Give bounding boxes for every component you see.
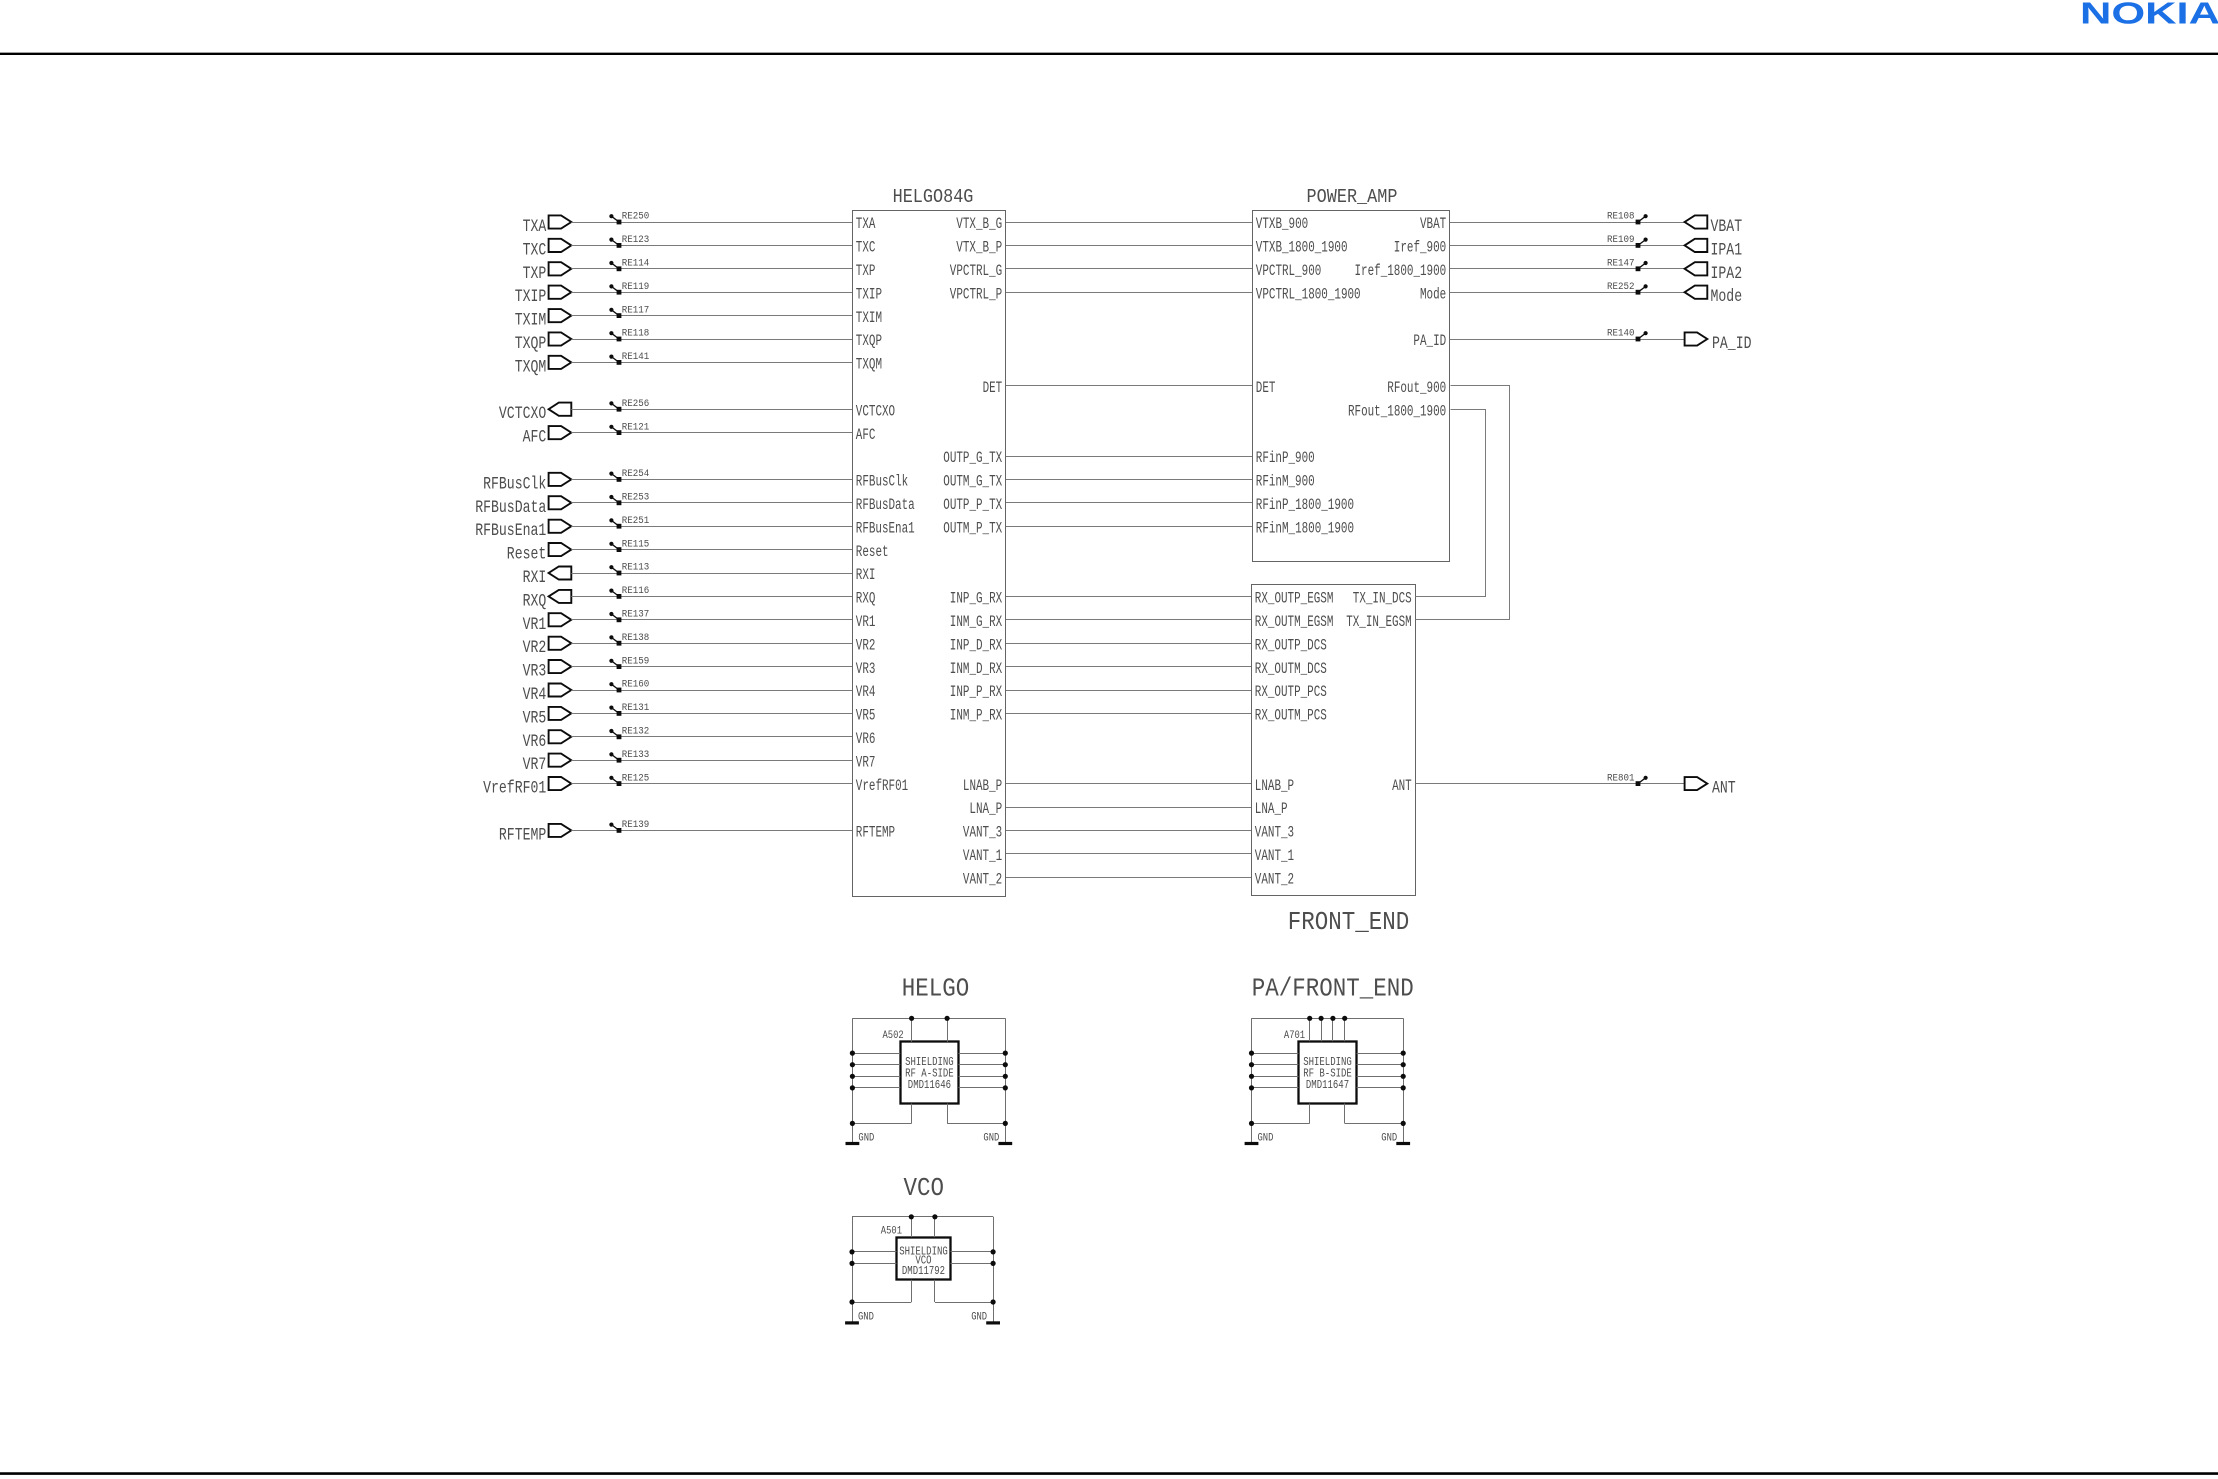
resistor RE117 [609, 304, 649, 318]
resistor RE251 [609, 515, 649, 529]
wire top pin 1 A701 [1309, 1018, 1311, 1041]
svg-text:RE117: RE117 [622, 304, 650, 316]
resistor RE118 [609, 328, 649, 342]
svg-text:VR4: VR4 [523, 685, 547, 705]
net flag Reset [507, 543, 572, 565]
ground right A502 [983, 1132, 1012, 1144]
svg-text:TXA: TXA [856, 215, 876, 233]
svg-text:RFBusEna1: RFBusEna1 [475, 521, 546, 541]
svg-text:RE132: RE132 [622, 726, 650, 738]
svg-text:RFinP_1800_1900: RFinP_1800_1900 [1256, 496, 1354, 514]
wire left pin 1 A501 [852, 1251, 896, 1253]
svg-text:RE114: RE114 [622, 258, 650, 270]
svg-text:VR6: VR6 [523, 732, 547, 752]
net flag VrefRF01 [483, 777, 571, 799]
wire right pin 2 A502 [959, 1064, 1006, 1066]
net flag RXQ [523, 590, 572, 612]
svg-text:RE256: RE256 [622, 398, 650, 410]
wire left rail A701 [1251, 1018, 1253, 1143]
resistor RE115 [609, 538, 649, 552]
svg-text:VBAT: VBAT [1711, 217, 1743, 237]
svg-text:RX_OUTM_EGSM: RX_OUTM_EGSM [1255, 613, 1334, 631]
net flag RFTEMP [499, 824, 571, 846]
wire left rail A502 [852, 1018, 854, 1143]
wire right pin 1 A501 [951, 1251, 994, 1253]
svg-text:RFinM_900: RFinM_900 [1256, 473, 1315, 491]
wire TXC to HELGO84G [571, 245, 852, 247]
svg-text:AFC: AFC [523, 428, 547, 448]
svg-text:DMD11646: DMD11646 [908, 1078, 951, 1092]
wire VrefRF01 to HELGO84G [571, 783, 852, 785]
svg-text:RE140: RE140 [1607, 328, 1635, 340]
wire VR2 to HELGO84G [571, 643, 852, 645]
svg-text:GND: GND [983, 1132, 999, 1144]
svg-text:RXQ: RXQ [856, 590, 876, 608]
resistor RE133 [609, 749, 649, 763]
net flag ANT [1685, 777, 1736, 799]
wire right rail A701 [1403, 1018, 1405, 1143]
resistor RE113 [609, 562, 649, 576]
shield can A701 [1284, 1030, 1357, 1103]
resistor RE253 [609, 492, 649, 506]
svg-text:PA_ID: PA_ID [1712, 334, 1752, 354]
wire RFout_900 to TX_IN_EGSM [1416, 386, 1510, 620]
svg-text:TXP: TXP [523, 264, 547, 284]
svg-text:Mode: Mode [1711, 287, 1743, 307]
wire left rail A501 [852, 1217, 854, 1323]
svg-text:INP_P_RX: INP_P_RX [950, 683, 1003, 701]
svg-text:TXQM: TXQM [515, 357, 547, 377]
svg-text:Iref_1800_1900: Iref_1800_1900 [1355, 262, 1447, 280]
IC POWER_AMP [1253, 186, 1450, 562]
wire left pin 2 A701 [1252, 1064, 1299, 1066]
wire INM_P_RX/RX_OUTM_PCS [1006, 713, 1251, 715]
svg-text:RFTEMP: RFTEMP [856, 824, 895, 842]
wire TXP to HELGO84G [571, 268, 852, 270]
resistor RE141 [609, 351, 649, 365]
net flag RFBusData [475, 496, 571, 518]
svg-text:VR1: VR1 [523, 615, 547, 635]
svg-text:VR2: VR2 [523, 638, 547, 658]
resistor RE256 [609, 398, 649, 412]
svg-text:INM_G_RX: INM_G_RX [950, 613, 1003, 631]
wire right rail A502 [1005, 1018, 1007, 1143]
svg-text:VTX_B_P: VTX_B_P [956, 239, 1002, 257]
net flag VR7 [523, 754, 572, 776]
wire top rail A502 [852, 1018, 1005, 1020]
wire top pin 2 A502 [947, 1018, 949, 1041]
svg-text:RFBusData: RFBusData [856, 496, 915, 514]
svg-text:VR5: VR5 [856, 707, 876, 725]
svg-text:RE133: RE133 [622, 749, 650, 761]
svg-text:RFBusClk: RFBusClk [483, 474, 546, 494]
svg-text:TXQM: TXQM [856, 356, 882, 374]
svg-text:IPA1: IPA1 [1711, 240, 1743, 260]
svg-text:RX_OUTM_DCS: RX_OUTM_DCS [1255, 660, 1327, 678]
wire top pin 1 A502 [911, 1018, 913, 1041]
svg-text:LNA_P: LNA_P [1255, 800, 1288, 818]
wire OUTM_P_TX/RFinM_1800_1900 [1006, 526, 1252, 528]
shield can A501 [881, 1226, 951, 1280]
wire top pin 1 A501 [911, 1217, 913, 1237]
svg-text:RE119: RE119 [622, 281, 650, 293]
svg-text:TXP: TXP [856, 262, 876, 280]
svg-text:VR7: VR7 [856, 753, 876, 771]
wire TXQM to HELGO84G [571, 362, 852, 364]
svg-text:A701: A701 [1284, 1030, 1306, 1042]
svg-text:RXI: RXI [523, 568, 547, 588]
svg-text:RE115: RE115 [622, 538, 650, 550]
wire VR1 to HELGO84G [571, 619, 852, 621]
svg-text:Reset: Reset [856, 543, 889, 561]
wire bottom pins A701 [1249, 1104, 1406, 1127]
svg-text:RE147: RE147 [1607, 258, 1635, 270]
svg-text:RE251: RE251 [622, 515, 650, 527]
svg-text:VANT_1: VANT_1 [963, 847, 1002, 865]
svg-text:RE116: RE116 [622, 585, 650, 597]
svg-text:RFinP_900: RFinP_900 [1256, 449, 1315, 467]
net flag IPA2 [1685, 262, 1743, 284]
resistor RE108 [1607, 211, 1648, 225]
svg-text:GND: GND [858, 1132, 874, 1144]
resistor RE140 [1607, 328, 1648, 342]
svg-text:RFout_900: RFout_900 [1387, 379, 1446, 397]
net flag Mode [1685, 286, 1743, 308]
wire VPCTRL_G/VPCTRL_900 [1006, 268, 1252, 270]
wire IPA2 [1450, 268, 1685, 270]
svg-text:RX_OUTM_PCS: RX_OUTM_PCS [1255, 707, 1327, 725]
svg-text:TXC: TXC [523, 240, 547, 260]
resistor RE138 [609, 632, 649, 646]
svg-text:HELGO84G: HELGO84G [893, 186, 974, 208]
resistor RE137 [609, 609, 649, 623]
wire RXQ to HELGO84G [571, 596, 852, 598]
svg-text:TXQP: TXQP [515, 334, 547, 354]
svg-text:VR5: VR5 [523, 708, 547, 728]
svg-text:DMD11647: DMD11647 [1306, 1078, 1349, 1092]
wire ANT [1416, 783, 1685, 785]
wire right pin 1 A701 [1357, 1053, 1404, 1055]
svg-text:VTX_B_G: VTX_B_G [956, 215, 1002, 233]
wire top pin 3 A701 [1332, 1018, 1334, 1041]
wire VR7 to HELGO84G [571, 760, 852, 762]
svg-text:RFout_1800_1900: RFout_1800_1900 [1348, 402, 1446, 420]
wire VTX_B_P/VTXB_1800_1900 [1006, 245, 1252, 247]
wire OUTP_P_TX/RFinP_1800_1900 [1006, 502, 1252, 504]
svg-text:VANT_3: VANT_3 [963, 824, 1002, 842]
svg-text:A502: A502 [883, 1030, 904, 1042]
svg-text:ANT: ANT [1392, 777, 1412, 795]
wire LNA_P/LNA_P [1006, 807, 1251, 809]
svg-text:VANT_3: VANT_3 [1255, 824, 1294, 842]
svg-text:TXQP: TXQP [856, 332, 882, 350]
wire RFTEMP to HELGO84G [571, 830, 852, 832]
wire right pin 4 A502 [959, 1087, 1006, 1089]
svg-text:INM_D_RX: INM_D_RX [950, 660, 1003, 678]
svg-text:VPCTRL_900: VPCTRL_900 [1256, 262, 1322, 280]
wire RFBusData to HELGO84G [571, 502, 852, 504]
svg-text:VANT_2: VANT_2 [1255, 870, 1294, 888]
svg-text:VPCTRL_G: VPCTRL_G [950, 262, 1002, 280]
resistor RE254 [609, 468, 649, 482]
svg-text:VrefRF01: VrefRF01 [856, 777, 908, 795]
resistor RE121 [609, 421, 649, 435]
wire PA_ID [1450, 339, 1685, 341]
wire VTX_B_G/VTXB_900 [1006, 222, 1252, 224]
wire IPA1 [1450, 245, 1685, 247]
resistor RE119 [609, 281, 649, 295]
svg-text:Iref_900: Iref_900 [1394, 239, 1446, 257]
svg-text:VR3: VR3 [856, 660, 876, 678]
svg-text:RE123: RE123 [622, 234, 650, 246]
svg-text:RE108: RE108 [1607, 211, 1635, 223]
svg-text:PA/FRONT_END: PA/FRONT_END [1252, 974, 1414, 1004]
net flag TXIP [515, 286, 572, 308]
svg-text:OUTM_P_TX: OUTM_P_TX [943, 519, 1002, 537]
svg-text:AFC: AFC [856, 426, 876, 444]
wire VR6 to HELGO84G [571, 736, 852, 738]
svg-text:VTXB_900: VTXB_900 [1256, 215, 1308, 233]
resistor RE125 [609, 772, 649, 786]
wire TXIP to HELGO84G [571, 292, 852, 294]
wire left pin 4 A502 [852, 1087, 900, 1089]
svg-text:Reset: Reset [507, 545, 547, 565]
svg-text:NOKIA: NOKIA [2080, 0, 2218, 30]
svg-text:LNAB_P: LNAB_P [963, 777, 1002, 795]
wire VCTCXO to HELGO84G [571, 409, 852, 411]
svg-text:RFBusData: RFBusData [475, 498, 546, 518]
resistor RE139 [609, 819, 649, 833]
wire left pin 4 A701 [1252, 1087, 1299, 1089]
resistor RE116 [609, 585, 649, 599]
net flag IPA1 [1685, 239, 1743, 261]
svg-text:VBAT: VBAT [1420, 215, 1446, 233]
net flag TXQP [515, 332, 572, 354]
svg-text:RE121: RE121 [622, 421, 650, 433]
wire OUTM_G_TX/RFinM_900 [1006, 479, 1252, 481]
net flag RXI [523, 567, 572, 589]
svg-text:RE250: RE250 [622, 211, 650, 223]
svg-text:RE801: RE801 [1607, 772, 1635, 784]
svg-text:LNA_P: LNA_P [969, 800, 1002, 818]
net flag RFBusClk [483, 473, 571, 495]
wire RFBusClk to HELGO84G [571, 479, 852, 481]
wire right pin 3 A502 [959, 1076, 1006, 1078]
svg-text:INP_G_RX: INP_G_RX [950, 590, 1003, 608]
svg-text:HELGO: HELGO [902, 974, 970, 1004]
wire INP_P_RX/RX_OUTP_PCS [1006, 690, 1251, 692]
svg-text:RE139: RE139 [622, 819, 650, 831]
wire right pin 4 A701 [1357, 1087, 1404, 1089]
wire VR5 to HELGO84G [571, 713, 852, 715]
net flag TXP [523, 262, 572, 284]
wire right pin 1 A502 [959, 1053, 1006, 1055]
ground left A501 [845, 1312, 874, 1324]
wire Reset to HELGO84G [571, 549, 852, 551]
svg-text:RE160: RE160 [622, 679, 650, 691]
resistor RE801 [1607, 772, 1648, 786]
svg-text:TXA: TXA [523, 217, 547, 237]
svg-text:RX_OUTP_PCS: RX_OUTP_PCS [1255, 683, 1327, 701]
wire VPCTRL_P/VPCTRL_1800_1900 [1006, 292, 1252, 294]
svg-text:VTXB_1800_1900: VTXB_1800_1900 [1256, 239, 1348, 257]
svg-text:ANT: ANT [1712, 779, 1736, 799]
svg-text:RE125: RE125 [622, 772, 650, 784]
wire left pin 2 A501 [852, 1263, 896, 1265]
svg-text:RX_OUTP_EGSM: RX_OUTP_EGSM [1255, 590, 1334, 608]
wire VR4 to HELGO84G [571, 690, 852, 692]
wire left pin 3 A502 [852, 1076, 900, 1078]
svg-text:RE141: RE141 [622, 351, 650, 363]
net flag RFBusEna1 [475, 520, 571, 542]
IC FRONT_END [1252, 585, 1416, 938]
wire VR3 to HELGO84G [571, 666, 852, 668]
svg-text:RE254: RE254 [622, 468, 650, 480]
resistor RE147 [1607, 258, 1648, 272]
svg-text:GND: GND [858, 1312, 874, 1324]
shield can A502 [883, 1030, 959, 1103]
svg-text:TXIP: TXIP [515, 287, 547, 307]
svg-text:OUTM_G_TX: OUTM_G_TX [943, 473, 1002, 491]
wire left pin 3 A701 [1252, 1076, 1299, 1078]
wire top pin 4 A701 [1344, 1018, 1346, 1041]
net flag VR2 [523, 637, 572, 659]
ground left A502 [846, 1132, 875, 1144]
svg-text:TXIM: TXIM [856, 309, 882, 327]
net flag AFC [523, 426, 572, 448]
svg-text:TXIM: TXIM [515, 311, 547, 331]
wire left pin 2 A502 [852, 1064, 900, 1066]
net flag VCTCXO [499, 403, 571, 425]
wire RFout_1800_1900 to TX_IN_DCS [1416, 410, 1486, 597]
svg-text:FRONT_END: FRONT_END [1288, 907, 1410, 937]
svg-text:RE113: RE113 [622, 562, 650, 574]
svg-text:RE253: RE253 [622, 492, 650, 504]
ground right A501 [971, 1312, 1000, 1324]
svg-text:VANT_2: VANT_2 [963, 870, 1002, 888]
svg-text:RE137: RE137 [622, 609, 650, 621]
svg-text:RE131: RE131 [622, 702, 650, 714]
svg-text:RFBusEna1: RFBusEna1 [856, 519, 915, 537]
wire RXI to HELGO84G [571, 573, 852, 575]
wire left pin 1 A502 [852, 1053, 900, 1055]
svg-text:RE138: RE138 [622, 632, 650, 644]
resistor RE123 [609, 234, 649, 248]
net flag VR3 [523, 660, 572, 682]
svg-text:RFinM_1800_1900: RFinM_1800_1900 [1256, 519, 1354, 537]
wire RFBusEna1 to HELGO84G [571, 526, 852, 528]
wire TXA to HELGO84G [571, 222, 852, 224]
svg-text:IPA2: IPA2 [1711, 264, 1743, 284]
svg-text:INM_P_RX: INM_P_RX [950, 707, 1003, 725]
svg-text:RFTEMP: RFTEMP [499, 825, 546, 845]
svg-text:VR2: VR2 [856, 636, 876, 654]
svg-text:VR3: VR3 [523, 662, 547, 682]
resistor RE109 [1607, 234, 1648, 248]
svg-text:OUTP_P_TX: OUTP_P_TX [943, 496, 1002, 514]
svg-text:GND: GND [1381, 1132, 1397, 1144]
wire TXQP to HELGO84G [571, 339, 852, 341]
svg-text:RE109: RE109 [1607, 234, 1635, 246]
wire right pin 2 A701 [1357, 1064, 1404, 1066]
net flag PA_ID [1685, 332, 1752, 354]
svg-text:RE252: RE252 [1607, 281, 1635, 293]
svg-text:VR7: VR7 [523, 755, 547, 775]
net flag VR5 [523, 707, 572, 729]
wire top pin 2 A501 [934, 1217, 936, 1237]
wire left pin 1 A701 [1252, 1053, 1299, 1055]
svg-text:VANT_1: VANT_1 [1255, 847, 1294, 865]
svg-text:DMD11792: DMD11792 [902, 1265, 945, 1278]
wire INP_D_RX/RX_OUTP_DCS [1006, 643, 1251, 645]
wire top rail A701 [1252, 1018, 1404, 1020]
resistor RE131 [609, 702, 649, 716]
net flag TXIM [515, 309, 572, 331]
svg-text:DET: DET [1256, 379, 1276, 397]
net flag VBAT [1685, 215, 1743, 237]
svg-text:RX_OUTP_DCS: RX_OUTP_DCS [1255, 636, 1327, 654]
svg-text:GND: GND [971, 1312, 987, 1324]
svg-text:VPCTRL_P: VPCTRL_P [950, 285, 1002, 303]
net flag VR4 [523, 684, 572, 706]
svg-text:RE118: RE118 [622, 328, 650, 340]
svg-text:GND: GND [1258, 1132, 1274, 1144]
IC HELGO84G [853, 186, 1006, 897]
net flag TXA [523, 215, 572, 237]
wire TXIM to HELGO84G [571, 315, 852, 317]
svg-text:POWER_AMP: POWER_AMP [1307, 186, 1398, 208]
svg-text:TXC: TXC [856, 239, 876, 257]
svg-text:VR6: VR6 [856, 730, 876, 748]
wire right pin 3 A701 [1357, 1076, 1404, 1078]
svg-text:VrefRF01: VrefRF01 [483, 779, 546, 799]
svg-text:INP_D_RX: INP_D_RX [950, 636, 1003, 654]
svg-text:VPCTRL_1800_1900: VPCTRL_1800_1900 [1256, 285, 1361, 303]
wire right pin 2 A501 [951, 1263, 994, 1265]
wire INP_G_RX/RX_OUTP_EGSM [1006, 596, 1251, 598]
svg-text:RXQ: RXQ [523, 591, 547, 611]
svg-text:OUTP_G_TX: OUTP_G_TX [943, 449, 1002, 467]
svg-text:VCTCXO: VCTCXO [856, 402, 895, 420]
net flag VR6 [523, 730, 572, 752]
net flag TXC [523, 239, 572, 261]
wire Mode [1450, 292, 1685, 294]
svg-text:Mode: Mode [1420, 285, 1446, 303]
svg-text:VCO: VCO [904, 1173, 945, 1203]
wire DET/DET [1006, 385, 1252, 387]
svg-text:VCTCXO: VCTCXO [499, 404, 546, 424]
svg-text:A501: A501 [881, 1226, 903, 1238]
ground right A701 [1381, 1132, 1410, 1144]
svg-text:RE159: RE159 [622, 655, 650, 667]
net flag TXQM [515, 356, 572, 378]
wire INM_G_RX/RX_OUTM_EGSM [1006, 619, 1251, 621]
svg-text:TX_IN_DCS: TX_IN_DCS [1353, 590, 1412, 608]
wire AFC to HELGO84G [571, 432, 852, 434]
resistor RE132 [609, 726, 649, 740]
svg-text:VR4: VR4 [856, 683, 876, 701]
wire OUTP_G_TX/RFinP_900 [1006, 456, 1252, 458]
wire right rail A501 [993, 1217, 995, 1323]
wire VBAT [1450, 222, 1685, 224]
svg-text:LNAB_P: LNAB_P [1255, 777, 1294, 795]
wire top pin 2 A701 [1321, 1018, 1323, 1041]
wire VANT_1/VANT_1 [1006, 853, 1251, 855]
wire INM_D_RX/RX_OUTM_DCS [1006, 666, 1251, 668]
resistor RE252 [1607, 281, 1648, 295]
resistor RE160 [609, 679, 649, 693]
svg-text:DET: DET [983, 379, 1003, 397]
